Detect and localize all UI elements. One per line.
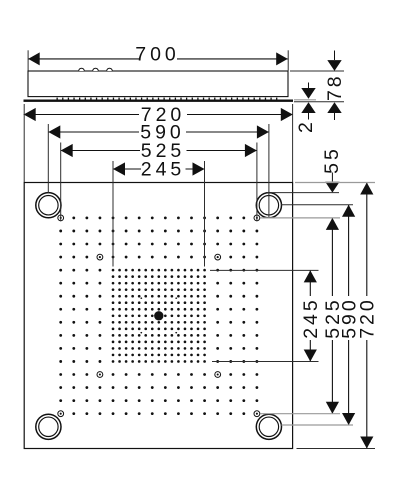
svg-text:245: 245 bbox=[300, 297, 322, 339]
svg-text:55: 55 bbox=[321, 146, 343, 174]
dimension 720 overall height bbox=[295, 183, 379, 449]
screw hole outer at 61,414 bbox=[58, 411, 64, 417]
dimension 78 housing height bbox=[290, 51, 346, 121]
svg-text:700: 700 bbox=[135, 43, 180, 65]
svg-text:2: 2 bbox=[295, 119, 317, 133]
dimension 700 housing width bbox=[28, 43, 288, 70]
screw hole inner at 100,257 bbox=[97, 254, 103, 260]
corner nozzle top-right bbox=[256, 193, 281, 218]
housing body side view bbox=[28, 71, 288, 97]
screw hole outer at 257,218 bbox=[254, 215, 260, 221]
center marker dot bbox=[154, 311, 163, 320]
svg-text:78: 78 bbox=[324, 73, 346, 101]
dimension 590 nozzle centers width bbox=[48, 122, 269, 218]
corner nozzle bottom-right bbox=[256, 414, 281, 439]
dimension 55 nozzle offset bbox=[267, 146, 343, 192]
shower plate outline bbox=[24, 183, 292, 449]
screw hole inner at 100,374 bbox=[97, 372, 103, 378]
corner nozzle bottom-left bbox=[36, 414, 61, 439]
screw hole inner at 218,257 bbox=[215, 254, 221, 260]
screw hole outer at 257,414 bbox=[254, 411, 260, 417]
dimension 590 nozzle centers height bbox=[281, 205, 360, 425]
spray nozzle ticks bbox=[57, 98, 278, 100]
dimension 720 overall width bbox=[24, 104, 293, 182]
svg-text:245: 245 bbox=[141, 159, 186, 181]
svg-text:720: 720 bbox=[357, 297, 379, 339]
dimension 2 glass thickness bbox=[294, 83, 317, 133]
dimension 245 dense field height bbox=[210, 270, 322, 361]
screw hole inner at 218,374 bbox=[215, 372, 221, 378]
tiny cleaning nozzle dots bbox=[140, 297, 177, 333]
hose connection bumps bbox=[79, 68, 113, 71]
center dense spray dot grid bbox=[112, 269, 206, 363]
dimension 245 dense field width bbox=[113, 159, 205, 267]
corner nozzle top-left bbox=[36, 193, 61, 218]
glass panel side view bbox=[24, 100, 294, 102]
screw hole outer at 61,218 bbox=[58, 215, 64, 221]
dimension 525 screw centers width bbox=[61, 140, 257, 221]
outer spray dot grid bbox=[59, 217, 258, 416]
svg-text:720: 720 bbox=[141, 104, 186, 126]
dimension 525 screw centers height bbox=[261, 218, 345, 414]
